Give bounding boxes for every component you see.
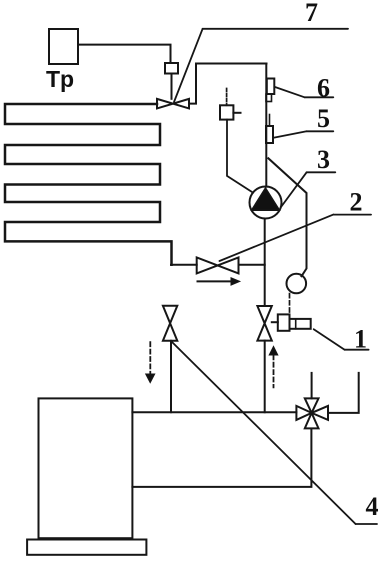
svg-text:7: 7 xyxy=(305,0,318,27)
svg-text:3: 3 xyxy=(317,145,330,174)
svg-text:4: 4 xyxy=(366,492,379,521)
svg-text:2: 2 xyxy=(350,188,363,217)
svg-text:1: 1 xyxy=(354,325,367,354)
svg-text:5: 5 xyxy=(317,104,330,133)
svg-text:Tp: Tp xyxy=(46,66,74,92)
svg-text:6: 6 xyxy=(317,74,330,103)
